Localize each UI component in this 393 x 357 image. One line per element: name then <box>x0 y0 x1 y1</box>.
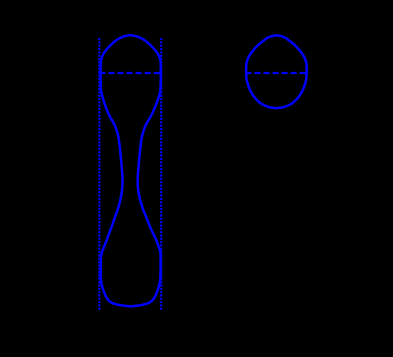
oval outline <box>246 35 307 108</box>
dashed equator of drop <box>99 72 161 74</box>
dotted tangent line left <box>98 38 100 311</box>
dashed equator of oval <box>245 72 306 74</box>
dotted tangent line right <box>160 38 162 311</box>
drop profile curve <box>101 35 161 306</box>
